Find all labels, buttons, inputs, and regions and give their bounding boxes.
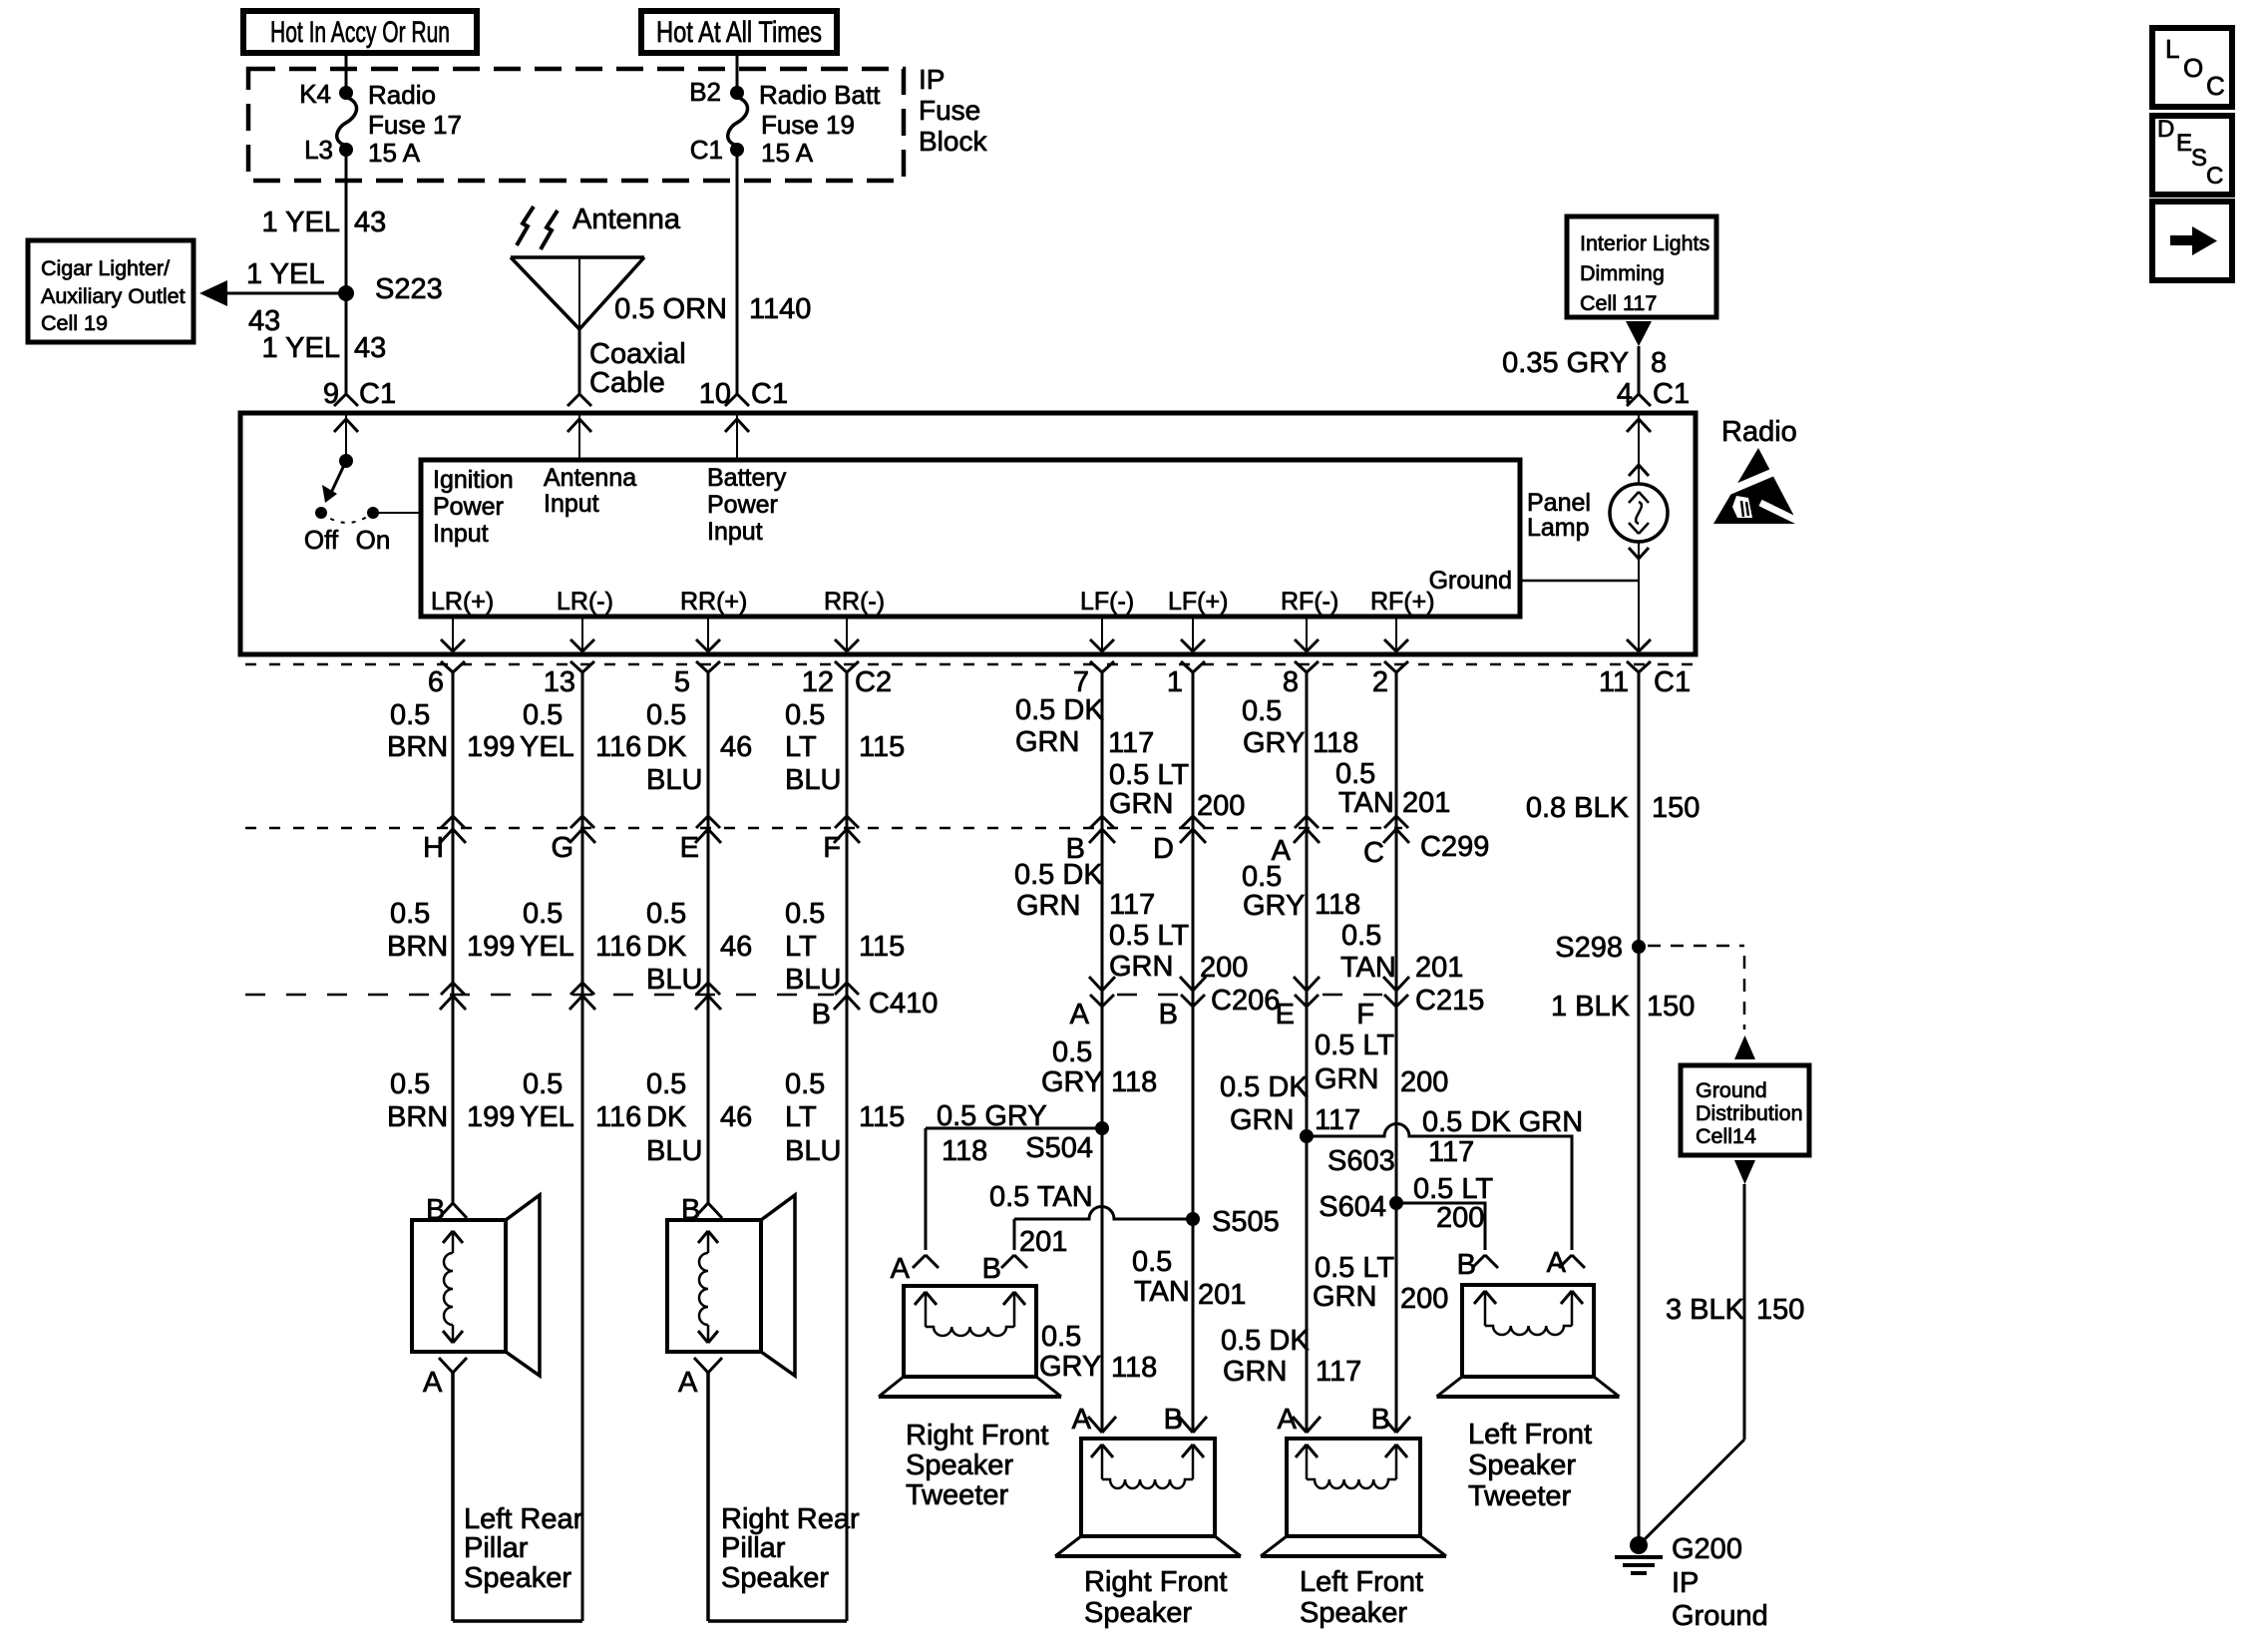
- svg-text:201: 201: [1402, 787, 1450, 819]
- svg-text:K4: K4: [299, 79, 331, 109]
- svg-text:S604: S604: [1319, 1191, 1386, 1223]
- svg-text:L3: L3: [304, 135, 333, 165]
- svg-text:4: 4: [1617, 378, 1633, 410]
- svg-text:0.5 GRY: 0.5 GRY: [937, 1100, 1047, 1132]
- svg-text:Antenna: Antenna: [544, 464, 636, 492]
- component box: Interior Lights Dimming Cell 117: [1567, 216, 1716, 317]
- svg-text:GRN: GRN: [1223, 1356, 1287, 1388]
- svg-text:C1: C1: [359, 378, 396, 410]
- svg-text:Speaker: Speaker: [906, 1449, 1013, 1481]
- svg-text:Cell 117: Cell 117: [1580, 291, 1657, 315]
- svg-text:Fuse: Fuse: [919, 95, 980, 126]
- radio output pin wires with down arrows: [441, 617, 1651, 651]
- legend box arrow: [2152, 202, 2232, 280]
- label 0.5 TAN 201 (row2): [1340, 920, 1463, 984]
- wire 0.5 ORN 1140 from fuse C1 to radio: [614, 150, 811, 394]
- connector pin 4 C1 at radio: [1617, 378, 1690, 410]
- svg-text:0.5: 0.5: [390, 1068, 430, 1100]
- off-page triangle to ground distribution: [1734, 1035, 1755, 1059]
- svg-text:Cable: Cable: [589, 367, 665, 399]
- svg-text:A: A: [1070, 999, 1090, 1030]
- label 0.5 LT GRN 200 (wire F): [1315, 1029, 1448, 1098]
- right front speaker: [1055, 1404, 1241, 1629]
- svg-text:Panel: Panel: [1527, 489, 1591, 517]
- radio antenna input wire + arrow: [567, 413, 591, 460]
- svg-text:15 A: 15 A: [368, 138, 421, 168]
- svg-text:0.5: 0.5: [646, 1068, 686, 1100]
- svg-text:D: D: [1153, 833, 1174, 865]
- label 0.5 LT BLU 115 (row2): [785, 898, 905, 996]
- splice S603 and 0.5 DK GRN 117 branch to left tweeter: [1300, 1106, 1583, 1250]
- svg-text:0.5 TAN: 0.5 TAN: [989, 1181, 1093, 1213]
- svg-text:GRN: GRN: [1313, 1281, 1376, 1313]
- svg-text:1 BLK: 1 BLK: [1551, 991, 1631, 1023]
- svg-text:RR(-): RR(-): [824, 588, 885, 616]
- svg-text:A: A: [1072, 1404, 1092, 1436]
- svg-text:E: E: [2176, 130, 2192, 157]
- svg-text:Speaker: Speaker: [1084, 1597, 1192, 1629]
- svg-text:Cell 19: Cell 19: [41, 311, 108, 335]
- svg-text:C215: C215: [1415, 985, 1484, 1017]
- svg-text:118: 118: [1111, 1352, 1157, 1384]
- svg-text:E: E: [1276, 999, 1295, 1030]
- svg-text:115: 115: [859, 731, 905, 763]
- svg-text:0.5: 0.5: [1242, 861, 1282, 893]
- svg-text:GRY: GRY: [1039, 1351, 1101, 1383]
- power source box: Hot At All Times: [641, 11, 837, 53]
- svg-text:199: 199: [467, 731, 515, 763]
- svg-text:G: G: [551, 832, 573, 864]
- svg-text:200: 200: [1400, 1283, 1448, 1315]
- svg-text:B: B: [426, 1194, 445, 1226]
- svg-text:0.5: 0.5: [390, 699, 430, 731]
- svg-text:BRN: BRN: [387, 1101, 448, 1133]
- svg-text:1: 1: [1167, 666, 1183, 698]
- svg-text:0.5 DK: 0.5 DK: [1015, 694, 1104, 726]
- svg-text:0.5 LT: 0.5 LT: [1315, 1029, 1394, 1061]
- svg-text:Ground: Ground: [1696, 1078, 1767, 1102]
- splice S298 with dashed branch: [1555, 932, 1744, 1029]
- svg-text:200: 200: [1200, 952, 1248, 984]
- svg-text:Cell14: Cell14: [1696, 1124, 1756, 1148]
- svg-text:0.5: 0.5: [785, 1068, 825, 1100]
- svg-text:Right Front: Right Front: [906, 1420, 1048, 1451]
- connector C215 with pins E,F: [1276, 977, 1485, 1030]
- svg-text:0.5: 0.5: [646, 898, 686, 930]
- fuse F17 (Radio Fuse 17 15 A), terminals K4/L3: [299, 79, 462, 168]
- svg-text:IP: IP: [919, 64, 945, 95]
- svg-text:118: 118: [1111, 1066, 1157, 1098]
- svg-text:L: L: [2165, 34, 2179, 64]
- svg-text:Input: Input: [544, 490, 599, 518]
- svg-text:GRY: GRY: [1243, 890, 1305, 922]
- svg-text:C206: C206: [1211, 985, 1280, 1017]
- connector pin 9 C1 at radio ignition input: [323, 378, 396, 410]
- svg-text:BLU: BLU: [646, 764, 702, 796]
- svg-text:200: 200: [1197, 790, 1245, 822]
- svg-text:BLU: BLU: [785, 964, 841, 996]
- svg-text:200: 200: [1400, 1066, 1448, 1098]
- left rear pillar speaker: [412, 1194, 583, 1621]
- svg-text:118: 118: [1315, 889, 1360, 921]
- ignition switch (Off/On): [304, 454, 421, 555]
- svg-text:Fuse 19: Fuse 19: [761, 110, 855, 140]
- svg-text:8: 8: [1283, 666, 1299, 698]
- IP Fuse Block label: [919, 64, 987, 157]
- label 0.5 LT BLU 115 (row1): [785, 699, 905, 796]
- svg-text:46: 46: [720, 1101, 752, 1133]
- svg-text:Lamp: Lamp: [1527, 514, 1590, 542]
- svg-text:C410: C410: [869, 988, 938, 1020]
- wire 1 YEL 43 from S223 to radio connector: [262, 293, 387, 396]
- label 0.5 YEL 116 (row1): [520, 699, 641, 763]
- inner box input labels: [433, 464, 787, 548]
- svg-text:0.5: 0.5: [1242, 695, 1282, 727]
- svg-text:0.5 LT: 0.5 LT: [1413, 1173, 1493, 1205]
- svg-text:LT: LT: [785, 931, 817, 963]
- svg-text:C1: C1: [1654, 666, 1691, 698]
- svg-text:On: On: [356, 525, 391, 555]
- svg-text:B: B: [1164, 1404, 1183, 1436]
- left front speaker: [1261, 1404, 1446, 1629]
- svg-text:46: 46: [720, 731, 752, 763]
- connector line C2/C1 below radio (dashed): [245, 663, 1696, 666]
- svg-text:0.5 DK: 0.5 DK: [1221, 1325, 1310, 1357]
- svg-text:117: 117: [1315, 1104, 1360, 1136]
- svg-text:BLU: BLU: [646, 964, 702, 996]
- svg-text:0.5: 0.5: [646, 699, 686, 731]
- svg-text:201: 201: [1019, 1226, 1067, 1258]
- svg-text:BLU: BLU: [785, 1135, 841, 1167]
- svg-text:E: E: [680, 832, 699, 864]
- svg-text:0.5: 0.5: [785, 699, 825, 731]
- label 0.5 DK BLU 46 (row2): [646, 898, 752, 996]
- svg-text:0.5 DK: 0.5 DK: [1014, 859, 1103, 891]
- svg-text:GRY: GRY: [1243, 727, 1305, 759]
- svg-text:LT: LT: [785, 1101, 817, 1133]
- svg-text:A: A: [891, 1253, 911, 1285]
- svg-text:Power: Power: [433, 493, 504, 521]
- svg-text:1140: 1140: [749, 293, 811, 325]
- svg-text:B: B: [982, 1253, 1001, 1285]
- svg-text:C: C: [1363, 837, 1384, 869]
- wire RF(-) 0.5 GRY 118 / DK GRN 117: [1306, 672, 1309, 1433]
- svg-text:13: 13: [544, 666, 575, 698]
- right rear pillar speaker: [667, 1194, 860, 1621]
- svg-text:9: 9: [323, 378, 339, 410]
- svg-text:150: 150: [1756, 1294, 1804, 1326]
- IP Fuse Block dashed box: [248, 69, 904, 181]
- svg-text:Ground: Ground: [1672, 1600, 1768, 1632]
- panel lamp: [1527, 413, 1668, 542]
- right front speaker tweeter: [879, 1253, 1061, 1511]
- ground G200 IP Ground: [1615, 1533, 1768, 1632]
- svg-text:C1: C1: [1653, 378, 1690, 410]
- svg-text:DK: DK: [646, 1101, 687, 1133]
- svg-text:118: 118: [1313, 727, 1358, 759]
- svg-text:Power: Power: [707, 491, 778, 519]
- svg-text:15 A: 15 A: [761, 138, 814, 168]
- connector row dashed line (C410): [245, 994, 834, 997]
- svg-text:201: 201: [1198, 1279, 1246, 1311]
- label 0.5 DK GRN 117 (below S603): [1221, 1325, 1361, 1388]
- svg-text:YEL: YEL: [520, 1101, 574, 1133]
- svg-text:TAN: TAN: [1338, 787, 1394, 819]
- label 0.5 DK GRN 117 (wire E): [1220, 1071, 1360, 1136]
- svg-text:BLU: BLU: [785, 764, 841, 796]
- svg-text:6: 6: [428, 666, 444, 698]
- svg-text:B: B: [681, 1194, 700, 1226]
- svg-text:RR(+): RR(+): [680, 588, 747, 616]
- svg-text:Speaker: Speaker: [1468, 1449, 1576, 1481]
- svg-text:GRN: GRN: [1109, 951, 1173, 983]
- svg-text:Dimming: Dimming: [1580, 261, 1665, 285]
- label 0.5 BRN 199 (row1): [387, 699, 515, 763]
- svg-text:S505: S505: [1212, 1206, 1280, 1238]
- svg-text:117: 117: [1428, 1136, 1474, 1168]
- svg-text:GRN: GRN: [1016, 890, 1080, 922]
- svg-text:Cigar Lighter/: Cigar Lighter/: [41, 256, 170, 280]
- svg-text:DK: DK: [646, 731, 687, 763]
- label 1 BLK 150: [1551, 991, 1695, 1023]
- svg-text:150: 150: [1652, 792, 1700, 824]
- connector at radio antenna input (coax): [567, 394, 591, 406]
- wire LF(-) 0.5 DK GRN 117 / GRY 118: [1101, 672, 1104, 1433]
- svg-text:RF(-): RF(-): [1281, 588, 1338, 616]
- splice S604 and 0.5 LT GRN 200 branch to left tweeter: [1319, 1173, 1493, 1250]
- svg-text:Ground: Ground: [1429, 567, 1512, 595]
- svg-text:10: 10: [699, 378, 731, 410]
- svg-text:B: B: [1159, 999, 1178, 1030]
- svg-text:0.5: 0.5: [1052, 1036, 1092, 1068]
- svg-text:G200: G200: [1672, 1533, 1742, 1565]
- connector row dashed line (C299): [245, 827, 1402, 830]
- label 0.5 GRY 118 (row2): [1242, 861, 1360, 922]
- svg-text:Antenna: Antenna: [572, 204, 681, 235]
- wire LR(+) 0.5 BRN 199: [452, 672, 455, 1203]
- svg-text:C1: C1: [690, 135, 723, 165]
- label 0.5 TAN 201 (row1): [1335, 758, 1450, 819]
- label 0.5 LT GRN 200 (below S604): [1313, 1252, 1448, 1315]
- wire from Hot In Accy Or Run into fuse block: [345, 53, 348, 93]
- svg-text:117: 117: [1108, 727, 1154, 759]
- svg-text:TAN: TAN: [1340, 952, 1396, 984]
- label 0.5 LT GRN 200 (row2): [1109, 920, 1248, 984]
- label 0.5 BRN 199 (row3): [387, 1068, 515, 1133]
- svg-text:C: C: [2206, 163, 2223, 190]
- label 0.5 GRY 118 (wire A of C206): [1041, 1036, 1157, 1098]
- wire 1 YEL 43 arrow to cigar lighter: [199, 258, 346, 337]
- label 0.5 YEL 116 (row2): [520, 898, 641, 963]
- svg-text:0.5: 0.5: [1341, 920, 1381, 952]
- svg-text:0.5 ORN: 0.5 ORN: [614, 293, 727, 325]
- svg-text:Interior Lights: Interior Lights: [1580, 231, 1709, 255]
- ESD sensitivity symbol: [1713, 448, 1801, 524]
- svg-text:0.5: 0.5: [390, 898, 430, 930]
- svg-text:0.5: 0.5: [1132, 1246, 1172, 1278]
- connector pins H,G,E,F: [423, 816, 860, 864]
- svg-text:0.5 LT: 0.5 LT: [1315, 1252, 1394, 1284]
- splice S223: [338, 273, 443, 305]
- svg-text:116: 116: [595, 931, 641, 963]
- svg-text:118: 118: [942, 1135, 987, 1167]
- svg-text:DK: DK: [646, 931, 687, 963]
- svg-text:Left Rear: Left Rear: [464, 1503, 583, 1535]
- svg-text:2: 2: [1372, 666, 1388, 698]
- svg-text:Fuse 17: Fuse 17: [368, 110, 462, 140]
- wire ground 0.8 BLK 150 from radio pin 11 to G200: [1638, 672, 1641, 1545]
- svg-text:Radio: Radio: [1721, 416, 1797, 448]
- svg-text:LF(+): LF(+): [1168, 588, 1228, 616]
- wire LF(+) 0.5 LT GRN 200 / TAN 201: [1192, 672, 1195, 1433]
- label 0.5 DK GRN 117 (row1): [1015, 694, 1154, 759]
- svg-text:RF(+): RF(+): [1370, 588, 1435, 616]
- svg-text:199: 199: [467, 931, 515, 963]
- connector C206 with pins A,B: [1070, 977, 1281, 1030]
- svg-text:Block: Block: [919, 126, 987, 157]
- svg-text:LF(-): LF(-): [1080, 588, 1134, 616]
- svg-text:LR(-): LR(-): [557, 588, 613, 616]
- component box: Ground Distribution Cell14: [1681, 1065, 1809, 1155]
- svg-text:0.5: 0.5: [523, 898, 563, 930]
- svg-text:GRY: GRY: [1041, 1066, 1103, 1098]
- svg-text:117: 117: [1109, 889, 1155, 921]
- label 0.5 LT GRN 200 (row1): [1109, 759, 1245, 822]
- svg-text:Speaker: Speaker: [1300, 1597, 1407, 1629]
- label 0.5 LT BLU 115 (row3): [785, 1068, 905, 1167]
- wire RF(+) 0.5 TAN 201 / LT GRN 200: [1395, 672, 1398, 1433]
- svg-text:Battery: Battery: [707, 464, 787, 492]
- radio battery input wire + arrow: [725, 413, 749, 460]
- svg-text:0.5: 0.5: [785, 898, 825, 930]
- svg-text:F: F: [823, 832, 841, 864]
- connector C410 chevrons and pin B: [440, 983, 938, 1030]
- wire from Hot At All Times into fuse block: [736, 53, 739, 93]
- svg-text:Coaxial: Coaxial: [589, 338, 686, 370]
- connector pins B,D,A,C of C299: [1066, 816, 1490, 869]
- svg-text:YEL: YEL: [520, 731, 574, 763]
- svg-text:0.8 BLK: 0.8 BLK: [1526, 792, 1630, 824]
- svg-text:12: 12: [802, 666, 834, 698]
- svg-text:1 YEL: 1 YEL: [262, 332, 340, 364]
- svg-text:201: 201: [1415, 952, 1463, 984]
- svg-text:0.5 LT: 0.5 LT: [1109, 759, 1189, 791]
- svg-text:116: 116: [595, 731, 641, 763]
- wire RR(+) 0.5 DK BLU 46: [707, 672, 710, 1203]
- svg-text:C2: C2: [855, 666, 892, 698]
- svg-text:BRN: BRN: [387, 731, 448, 763]
- svg-text:A: A: [1278, 1404, 1298, 1436]
- svg-text:0.5: 0.5: [1335, 758, 1375, 790]
- off-page triangle below ground distribution box: [1734, 1160, 1755, 1184]
- fuse F19 (Radio Batt Fuse 19 15 A), terminals B2/C1: [689, 77, 881, 168]
- connector pin 10 C1 at radio battery input: [699, 378, 788, 410]
- svg-text:B2: B2: [689, 77, 721, 107]
- svg-text:C299: C299: [1420, 831, 1489, 863]
- svg-text:Auxiliary Outlet: Auxiliary Outlet: [41, 284, 186, 308]
- svg-text:1 YEL: 1 YEL: [262, 206, 340, 238]
- svg-text:S: S: [2191, 145, 2207, 172]
- svg-text:C1: C1: [751, 378, 788, 410]
- svg-text:A: A: [423, 1367, 443, 1399]
- left front speaker tweeter: [1437, 1247, 1620, 1512]
- panel lamp lower wire and ground line: [1520, 542, 1649, 651]
- label 0.5 TAN 201 (below S505): [1132, 1246, 1246, 1311]
- inner box Ground label: [1429, 567, 1512, 595]
- svg-text:LR(+): LR(+): [431, 588, 494, 616]
- svg-text:Hot At All Times: Hot At All Times: [656, 16, 822, 49]
- wire 0.35 GRY 8 to radio panel lamp input: [1502, 346, 1667, 394]
- label 0.5 YEL 116 (row3): [520, 1068, 641, 1133]
- radio label: [1721, 416, 1797, 448]
- svg-text:Pillar: Pillar: [721, 1532, 786, 1564]
- svg-text:46: 46: [720, 931, 752, 963]
- svg-text:Radio Batt: Radio Batt: [759, 80, 881, 110]
- svg-text:S504: S504: [1025, 1132, 1093, 1164]
- wire 1 YEL 43 from fuse L3 down to S223: [262, 150, 387, 293]
- svg-text:116: 116: [595, 1101, 641, 1133]
- svg-text:S298: S298: [1555, 932, 1623, 964]
- svg-text:A: A: [1547, 1247, 1567, 1279]
- component box: Cigar Lighter/Auxiliary Outlet Cell 19: [28, 240, 193, 342]
- svg-text:Radio: Radio: [368, 80, 436, 110]
- svg-text:Distribution: Distribution: [1696, 1101, 1803, 1125]
- svg-text:Input: Input: [433, 520, 489, 548]
- svg-text:Tweeter: Tweeter: [1468, 1480, 1571, 1512]
- wire LR(-) 0.5 YEL 116: [581, 672, 584, 1621]
- svg-text:Speaker: Speaker: [464, 1562, 571, 1594]
- inner box speaker output labels: [431, 588, 1435, 616]
- svg-text:D: D: [2157, 116, 2174, 143]
- svg-text:GRN: GRN: [1315, 1063, 1378, 1095]
- svg-text:8: 8: [1651, 347, 1667, 379]
- connector pins 6,13,5,12 C2 and 7,1,8,2,11 C1: [428, 661, 1691, 698]
- splice S504 and 0.5 GRY 118 branch to tweeter: [926, 1100, 1109, 1250]
- svg-text:Left Front: Left Front: [1468, 1419, 1592, 1450]
- wire RR(-) 0.5 LT BLU 115: [846, 672, 849, 1621]
- label 0.5 GRY 118 (below S504): [1039, 1321, 1157, 1384]
- off-page triangle from interior lights box: [1626, 321, 1652, 346]
- svg-text:Pillar: Pillar: [464, 1532, 529, 1564]
- svg-text:43: 43: [354, 206, 386, 238]
- svg-text:0.5: 0.5: [523, 699, 563, 731]
- svg-text:Tweeter: Tweeter: [906, 1479, 1008, 1511]
- svg-text:BLU: BLU: [646, 1135, 702, 1167]
- svg-text:1 YEL: 1 YEL: [246, 258, 324, 290]
- svg-text:115: 115: [859, 1101, 905, 1133]
- svg-text:115: 115: [859, 931, 905, 963]
- svg-text:GRN: GRN: [1230, 1104, 1294, 1136]
- splice S505 and 0.5 TAN 201 branch to tweeter: [989, 1181, 1280, 1258]
- svg-text:LT: LT: [785, 731, 817, 763]
- svg-text:11: 11: [1599, 666, 1629, 698]
- svg-text:H: H: [423, 832, 444, 864]
- svg-text:S223: S223: [375, 273, 443, 305]
- svg-text:IP: IP: [1672, 1567, 1699, 1599]
- svg-text:Right Front: Right Front: [1084, 1566, 1227, 1598]
- svg-text:O: O: [2183, 53, 2203, 83]
- svg-text:200: 200: [1436, 1202, 1484, 1234]
- svg-text:5: 5: [674, 666, 690, 698]
- label 0.5 BRN 199 (row2): [387, 898, 515, 963]
- svg-text:GRN: GRN: [1015, 726, 1079, 758]
- svg-text:150: 150: [1647, 991, 1695, 1023]
- svg-text:0.5: 0.5: [523, 1068, 563, 1100]
- svg-text:Input: Input: [707, 518, 763, 546]
- wire 3 BLK 150 from ground distribution to G200: [1639, 1184, 1804, 1545]
- coaxial cable wire from antenna to radio: [579, 329, 686, 399]
- svg-text:TAN: TAN: [1134, 1276, 1190, 1308]
